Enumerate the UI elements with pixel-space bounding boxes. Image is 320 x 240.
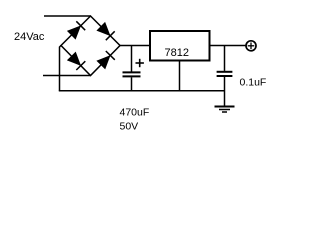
svg-text:7812: 7812 [165, 47, 189, 59]
svg-text:50V: 50V [120, 121, 139, 133]
regulator U1 7812 box [150, 31, 210, 61]
svg-text:0.1uF: 0.1uF [240, 77, 267, 89]
output terminal plus [246, 41, 256, 51]
wire regulator ground pin [179, 61, 181, 91]
svg-text:470uF: 470uF [120, 107, 150, 119]
wire AC input top [44, 15, 91, 17]
diode D1 [68, 21, 85, 38]
wire AC input bottom [43, 75, 91, 77]
wire ground rail bottom [59, 90, 225, 92]
wire bridge negative output down [60, 46, 62, 91]
wire C1 bottom lead [131, 77, 133, 90]
ground symbol [215, 107, 235, 113]
capacitor C1 470uF plates [123, 72, 141, 76]
svg-text:24Vac: 24Vac [14, 31, 45, 43]
capacitor C2 0.1uF plates [217, 72, 233, 76]
wire C1 top lead [131, 46, 133, 72]
wire regulator output [210, 45, 247, 47]
wire C2 bottom lead to ground [224, 77, 226, 106]
diode D2 [97, 23, 114, 40]
diode D3 [68, 53, 86, 71]
wire C2 top lead [224, 46, 226, 71]
bridge rectifier diamond [61, 16, 120, 76]
diode D4 [97, 51, 115, 69]
wire bridge positive output to regulator input [120, 45, 150, 47]
capacitor C1 polarity plus [136, 59, 144, 67]
